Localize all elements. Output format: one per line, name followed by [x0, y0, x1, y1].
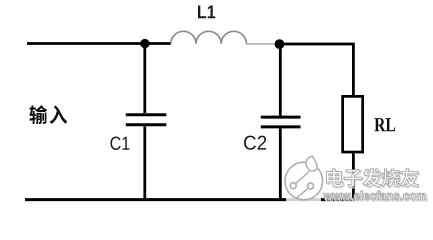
wire RL to bottom rail [352, 153, 355, 199]
wire top-left rail [27, 42, 171, 45]
wire C2 to bottom rail [279, 128, 282, 199]
watermark char 友 [400, 169, 418, 187]
watermark char 发 [362, 169, 381, 187]
inductor L1 [171, 31, 275, 44]
wire node B to C2 [279, 44, 282, 116]
node A junction dot [140, 39, 149, 48]
node B junction dot [275, 39, 285, 49]
watermark url text [323, 191, 425, 200]
watermark char 电 [326, 169, 343, 187]
watermark char 子 [344, 170, 362, 187]
watermark char 子 shadow [345, 171, 363, 188]
wire C1 to bottom rail [143, 126, 146, 200]
capacitor C2 [261, 117, 301, 127]
wire node A to C1 [143, 44, 146, 113]
watermark logo [285, 156, 323, 203]
watermark char 发 shadow [364, 170, 383, 188]
capacitor C1 [126, 115, 167, 125]
label RL [374, 118, 395, 131]
wire bottom rail [25, 198, 355, 201]
wire top-right rail to RL [280, 44, 354, 95]
watermark url shadow [325, 192, 427, 201]
watermark char 烧 shadow [383, 170, 402, 188]
label L1 [198, 6, 215, 19]
label input (ru) [49, 105, 67, 124]
watermark char 电 shadow [328, 170, 345, 188]
label C1 [110, 137, 129, 150]
watermark char 烧 [382, 169, 401, 187]
label input (shu) [29, 105, 47, 124]
label C2 [244, 136, 266, 150]
watermark char 友 shadow [402, 170, 420, 188]
resistor RL [343, 96, 363, 152]
